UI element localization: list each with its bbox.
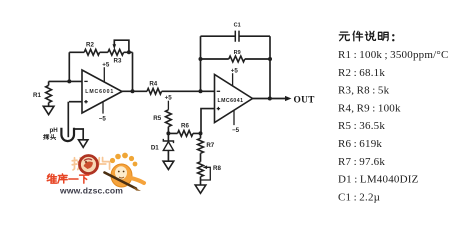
svg-text:R4, R9 : 100k: R4, R9 : 100k (338, 102, 401, 114)
resistor R2 (84, 49, 99, 55)
svg-text:LMC6041: LMC6041 (218, 98, 244, 104)
node: R9 right (268, 57, 272, 61)
watermark badge (80, 156, 98, 174)
wire: U2 non-inverting input (201, 109, 215, 134)
node: R5/D1/R6 (166, 131, 170, 135)
wire: probe shield to ground (74, 129, 83, 140)
svg-text:+5: +5 (102, 61, 110, 68)
svg-text:OUT: OUT (294, 95, 316, 105)
ground below R8 (195, 185, 206, 193)
pH probe electrode wire (67, 102, 69, 138)
wire: U2 feedback left vertical (200, 36, 202, 91)
svg-text:R1: R1 (33, 92, 41, 99)
svg-text:+5: +5 (231, 67, 239, 74)
svg-text:R2: R2 (86, 42, 94, 49)
potentiometer R3 (108, 49, 124, 55)
potentiometer R8 (198, 162, 204, 177)
resistor R4 (147, 88, 162, 94)
watermark 维库一下 (47, 174, 57, 183)
svg-text:R8: R8 (213, 165, 221, 172)
R8 wiper arm (201, 167, 211, 180)
wire: feedback top rail (69, 51, 132, 53)
pH probe tube (61, 128, 74, 141)
ground at probe (79, 140, 88, 148)
ground below R1 (43, 106, 54, 114)
node: feedback tap on inverting input (67, 79, 71, 83)
svg-text:R7 : 97.6k: R7 : 97.6k (338, 156, 385, 168)
output (253, 98, 289, 100)
OUT arrow (285, 96, 292, 101)
op-amp U1 LMC6001 (82, 70, 122, 113)
wire: U1 out to R4 (122, 90, 147, 92)
watermark 找芯片 background chars (72, 158, 86, 170)
svg-text:R3: R3 (114, 58, 122, 65)
svg-text:pH: pH (50, 127, 59, 134)
heading 元件说明: (339, 32, 349, 41)
wire: R1 top to U1 inverting input (49, 80, 82, 82)
svg-text:R6: R6 (181, 122, 189, 129)
svg-text:−5: −5 (99, 116, 107, 123)
wire: U2 feedback right vertical (269, 36, 271, 98)
wire: feedback right vertical down to U1 output (132, 52, 134, 91)
svg-text:D1 : LM4040DIZ: D1 : LM4040DIZ (338, 174, 419, 186)
svg-text:R4: R4 (149, 80, 157, 87)
R3 wiper arm (114, 40, 129, 52)
resistor R1 (48, 81, 50, 85)
label 探头 (probe) (43, 134, 49, 139)
node: R3 wiper to feedback rail (127, 50, 131, 54)
zener D1 LM4040 (167, 133, 169, 141)
op-amp U2 LMC6041 (215, 75, 253, 123)
resistor R9 (201, 58, 271, 60)
svg-text:+5: +5 (165, 95, 173, 102)
wire: reference rail (168, 132, 200, 134)
mascot pen (105, 173, 137, 189)
resistor R7 (200, 133, 202, 138)
watermark mascot (111, 164, 132, 187)
wire: feedback left vertical (68, 52, 70, 81)
svg-text:R5: R5 (153, 115, 161, 122)
svg-text:R2 : 68.1k: R2 : 68.1k (338, 67, 385, 79)
node: U1 output / feedback junction (131, 89, 135, 93)
ground below D1 (163, 161, 174, 169)
node: R6/R7/U2+ (199, 131, 203, 135)
svg-text:www.dzsc.com: www.dzsc.com (59, 185, 123, 195)
svg-text:D1: D1 (151, 145, 159, 152)
svg-text:C1 : 2.2µ: C1 : 2.2µ (338, 191, 380, 203)
svg-text:R3, R8 : 5k: R3, R8 : 5k (338, 85, 390, 97)
svg-text:R6 : 619k: R6 : 619k (338, 138, 382, 150)
wire: U1 non-inverting input (69, 101, 82, 103)
node: U2 inverting input / feedback (199, 89, 203, 93)
resistor R5 (166, 110, 172, 127)
svg-text:R9: R9 (234, 50, 241, 56)
svg-text:R1 : 100k ; 3500ppm/°C: R1 : 100k ; 3500ppm/°C (338, 49, 449, 61)
node: R9 left (199, 57, 203, 61)
svg-text:LMC6001: LMC6001 (85, 89, 113, 95)
wire: R4 to U2 inverting input (162, 90, 215, 92)
node: output / feedback junction (268, 97, 272, 101)
svg-text:R5 : 36.5k: R5 : 36.5k (338, 120, 385, 132)
svg-text:−5: −5 (232, 127, 240, 134)
svg-text:C1: C1 (234, 23, 241, 29)
capacitor C1 (201, 35, 271, 37)
svg-text:R7: R7 (206, 142, 214, 149)
resistor R6 (178, 131, 193, 137)
